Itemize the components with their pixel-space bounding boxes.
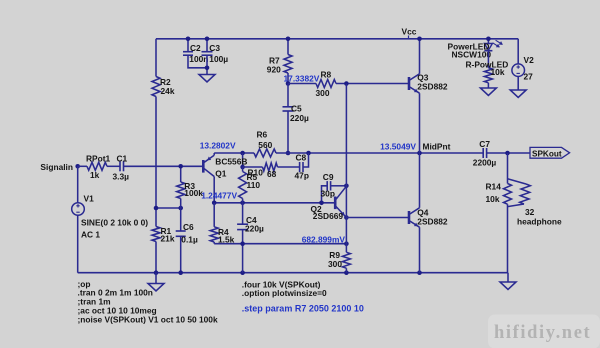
junction C2 rail — [186, 37, 191, 42]
svg-text:Signalin: Signalin — [40, 162, 73, 172]
resistor R10 — [263, 163, 278, 171]
resistor R6 — [254, 149, 276, 157]
svg-text:300: 300 — [316, 88, 330, 98]
junction Q1 collector node — [212, 201, 217, 206]
wire R10 to C8 — [278, 166, 300, 168]
resistor R7 — [287, 39, 289, 55]
resistor RPot1 — [87, 162, 107, 170]
svg-text:C7: C7 — [479, 139, 490, 149]
resistor R4 — [213, 203, 215, 227]
svg-text:560: 560 — [258, 140, 272, 150]
svg-text:;noise V(SPKout) V1 oct 10 50: ;noise V(SPKout) V1 oct 10 50 100k — [78, 314, 218, 324]
svg-text:1k: 1k — [90, 170, 100, 180]
svg-text:AC 1: AC 1 — [81, 230, 100, 240]
transistor Q2 — [334, 197, 337, 210]
svg-text:10k: 10k — [486, 194, 500, 204]
svg-text:RPot1: RPot1 — [86, 154, 111, 164]
junction R3 tap — [178, 164, 183, 169]
wire mid rail main segment — [276, 152, 483, 154]
svg-text:3.3µ: 3.3µ — [113, 172, 130, 182]
junction rung-left — [154, 206, 159, 211]
svg-text:30p: 30p — [321, 189, 335, 199]
capacitor C3 — [206, 39, 208, 52]
junction LED rail — [486, 37, 491, 42]
wire big vertical — [345, 84, 347, 253]
junction Q3 collector rail — [417, 37, 422, 42]
svg-text:Q1: Q1 — [215, 168, 227, 178]
transistor Q1 — [202, 160, 205, 173]
wire 17.3V node to R8 — [288, 83, 316, 85]
junction R5-C4 node — [240, 201, 245, 206]
wire R8 to Q3 base — [336, 83, 408, 85]
svg-text:27: 27 — [524, 71, 534, 81]
capacitor C9 — [322, 186, 328, 203]
resistor R-PowLED — [487, 51, 489, 68]
wire R3 column — [180, 166, 182, 182]
svg-text:.option plotwinsize=0: .option plotwinsize=0 — [242, 288, 327, 298]
junction mid rail C8 return — [306, 151, 311, 156]
wire left column middle (R2 to R1) — [155, 97, 157, 227]
junction bottom mid — [240, 241, 245, 246]
svg-text:100µ: 100µ — [209, 54, 228, 64]
junction rail C6 — [178, 270, 183, 275]
resistor R14 — [504, 184, 512, 205]
junction R7 rail — [286, 37, 291, 42]
junction output node — [505, 151, 510, 156]
wire bottom mid connector — [214, 243, 346, 245]
wire left column upper (rail to R2) — [155, 39, 157, 77]
svg-text:C9: C9 — [323, 172, 334, 182]
svg-text:110: 110 — [247, 180, 261, 190]
svg-text:V1: V1 — [84, 194, 95, 204]
wire Vcc top rail — [156, 38, 518, 40]
svg-text:SINE(0 2 10k 0 0): SINE(0 2 10k 0 0) — [81, 218, 148, 228]
wire left column lower (R1 to rail) — [155, 242, 157, 273]
svg-text:R6: R6 — [257, 130, 268, 140]
junction C9 base tap — [319, 201, 324, 206]
capacitor C2 — [187, 39, 189, 52]
svg-text:MidPnt: MidPnt — [423, 141, 451, 151]
svg-text:2SD669: 2SD669 — [313, 211, 344, 221]
svg-text:.step param R7 2050 2100 10: .step param R7 2050 2100 10 — [242, 304, 364, 314]
wire C4 node to rail — [242, 244, 244, 273]
svg-text:300: 300 — [328, 259, 342, 269]
ground decoupling — [199, 75, 215, 83]
svg-text:C8: C8 — [296, 153, 307, 163]
wire signal input — [78, 165, 87, 167]
wire C6 to rail — [180, 236, 182, 272]
voltage source V1 — [77, 166, 79, 202]
svg-text:BC556B: BC556B — [215, 156, 247, 166]
capacitor C1 — [119, 161, 121, 171]
ground LED — [480, 88, 496, 96]
svg-text:headphone: headphone — [517, 216, 562, 226]
capacitor C8 — [299, 162, 301, 172]
watermark hifidiy.net — [488, 315, 600, 348]
wire bottom ground rail — [78, 272, 508, 274]
svg-text:V2: V2 — [524, 55, 535, 65]
junction mid rail R10 branch — [240, 151, 245, 156]
ground right — [507, 273, 509, 282]
junction Q2 collector — [344, 184, 349, 189]
node SPKout flag — [530, 147, 570, 158]
junction rail C4 — [240, 270, 245, 275]
svg-text:220µ: 220µ — [290, 113, 309, 123]
wire output column lower — [507, 204, 509, 273]
resistor R5 — [242, 167, 244, 172]
resistor R1 — [152, 227, 160, 242]
wire output column upper — [507, 153, 509, 184]
svg-text:68: 68 — [267, 169, 277, 179]
svg-text:13.2802V: 13.2802V — [200, 140, 236, 150]
junction rail Q4 — [417, 270, 422, 275]
svg-text:0.1µ: 0.1µ — [181, 234, 198, 244]
svg-text:682.899mV: 682.899mV — [302, 234, 346, 244]
junction rail R1 — [154, 270, 159, 275]
junction 682mV node — [344, 241, 349, 246]
svg-text:R14: R14 — [486, 182, 502, 192]
wire C8 return — [303, 153, 309, 167]
junction C3 rail — [205, 37, 210, 42]
junction R10 line left — [240, 165, 245, 170]
svg-text:Vcc: Vcc — [402, 27, 417, 37]
wire C7 to output node — [487, 152, 530, 154]
svg-text:920: 920 — [267, 65, 281, 75]
svg-text:13.5049V: 13.5049V — [380, 141, 416, 151]
svg-text:2SD882: 2SD882 — [417, 216, 448, 226]
ground left — [155, 273, 157, 284]
svg-text:C1: C1 — [117, 154, 128, 164]
svg-text:21k: 21k — [161, 233, 175, 243]
svg-text:2SD882: 2SD882 — [417, 81, 448, 91]
resistor R8 — [316, 80, 336, 88]
svg-text:NSCW100: NSCW100 — [452, 49, 492, 59]
junction R8 bigvert — [344, 81, 349, 86]
junction Q2 emitter — [344, 215, 349, 220]
svg-text:C6: C6 — [183, 222, 194, 232]
wire RPot1 to C1 — [107, 165, 120, 167]
wire R3 to rung — [180, 199, 182, 209]
wire Q2 emitter to Q4 base — [346, 217, 408, 219]
resistor R9 — [342, 252, 350, 268]
junction C5 mid rail — [286, 151, 291, 156]
svg-text:47p: 47p — [295, 171, 309, 181]
junction rung-right — [178, 206, 183, 211]
junction Signalin node — [75, 164, 80, 169]
svg-text:R8: R8 — [321, 70, 332, 80]
svg-text:hifidiy.net: hifidiy.net — [494, 323, 591, 343]
svg-text:C5: C5 — [291, 104, 302, 114]
wire branch down to R10 line — [242, 153, 244, 167]
svg-text:SPKout: SPKout — [532, 149, 562, 158]
transistor Q3 — [408, 77, 411, 90]
voltage source V2 — [517, 39, 519, 64]
transistor Q4 — [408, 211, 411, 224]
resistor R2 — [152, 77, 160, 97]
svg-text:10k: 10k — [491, 67, 505, 77]
LED PowerLED — [487, 39, 489, 44]
ground V2 — [510, 90, 526, 98]
capacitor C6 — [180, 208, 182, 231]
resistor R3 — [177, 182, 185, 199]
svg-text:24k: 24k — [161, 86, 175, 96]
junction 17.3V node — [286, 81, 291, 86]
svg-text:1.24477V: 1.24477V — [201, 190, 237, 200]
capacitor C5 — [287, 84, 289, 107]
junction rail R9 — [344, 270, 349, 275]
svg-text:C2: C2 — [190, 43, 201, 53]
wire C1 to Q1 base — [124, 165, 203, 167]
wire R10 line lead — [243, 166, 263, 168]
capacitor C7 — [482, 148, 484, 158]
svg-text:2200µ: 2200µ — [473, 158, 497, 168]
wire 1.24V node — [214, 202, 334, 204]
svg-text:220µ: 220µ — [245, 223, 264, 233]
speaker headphone 32 ohm — [508, 179, 527, 184]
wire mid rail left segment — [214, 152, 254, 154]
junction C2-C3 bottom — [205, 66, 210, 71]
svg-text:C3: C3 — [209, 43, 220, 53]
wire bias rung — [156, 207, 181, 209]
capacitor C4 — [242, 203, 244, 224]
junction mid rail output stage — [417, 151, 422, 156]
